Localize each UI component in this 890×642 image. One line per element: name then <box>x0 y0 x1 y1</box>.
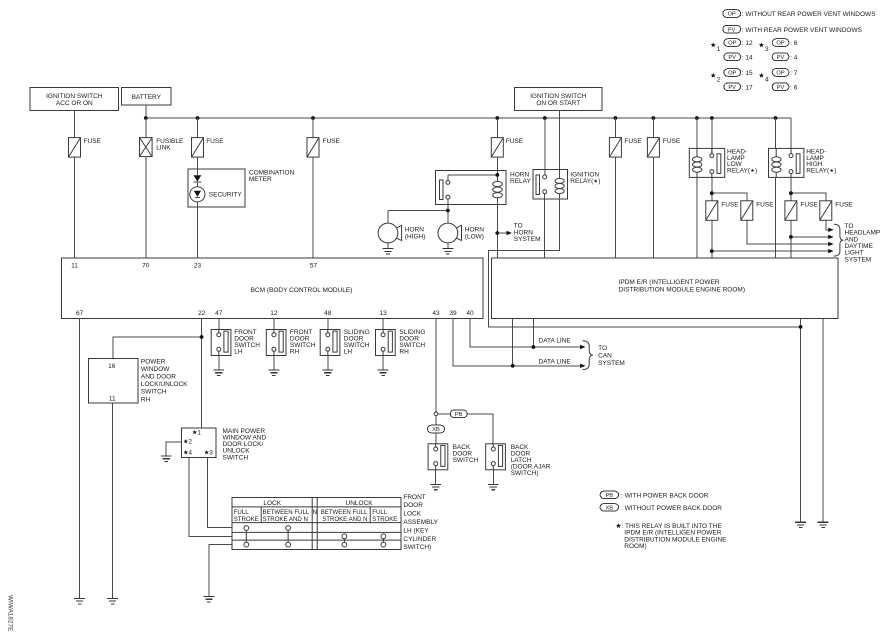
svg-text:FUSE: FUSE <box>721 201 739 208</box>
wire: headlamp high contact to fuses <box>791 177 826 200</box>
wire: main switch pin 3 to key cylinder row A <box>207 458 232 528</box>
svg-text:: 14: : 14 <box>742 55 753 62</box>
svg-text:DATA LINE: DATA LINE <box>539 337 572 344</box>
svg-text:RELAY(: RELAY( <box>727 168 751 175</box>
fuse F10 <box>820 201 832 221</box>
arrow: headlamp line 2 <box>828 235 833 239</box>
relay: horn relay <box>435 170 531 204</box>
svg-text:: 17: : 17 <box>742 84 753 91</box>
wire: ignition switch to ignition relay coil <box>559 111 561 180</box>
node: low contact branch junction <box>710 191 714 195</box>
relay: headlamp low relay <box>689 148 724 177</box>
svg-text:FULL: FULL <box>234 509 250 516</box>
svg-text:40: 40 <box>466 310 474 317</box>
svg-text:LH: LH <box>234 349 243 356</box>
ground: BCM pin 67 <box>74 598 85 603</box>
svg-text:2: 2 <box>717 76 721 83</box>
fuse F6 (IPDM) <box>652 118 654 138</box>
box: IGNITION SWITCH ACC OR ON <box>30 88 119 111</box>
pill: PB inline <box>450 410 467 418</box>
wire: bus end to headlamp high relay <box>776 118 791 154</box>
node: pin 22 branch junction <box>200 335 204 339</box>
node: bus junction ipdm fuse 2 <box>652 116 656 120</box>
node: CAN upper junction <box>532 345 536 349</box>
wire: horn relay coil to IPDM <box>496 204 498 258</box>
switch: sliding door switch RH <box>376 330 396 356</box>
svg-text:SWITCH): SWITCH) <box>403 544 431 551</box>
svg-text:METER: METER <box>249 176 272 183</box>
svg-text:ACC OR ON: ACC OR ON <box>56 100 93 107</box>
svg-text:43: 43 <box>432 310 440 317</box>
wire: diode to security lamp <box>196 182 198 187</box>
node: fuse F7 branch junction <box>710 249 714 253</box>
svg-text:OP: OP <box>776 71 784 77</box>
svg-text:DISTRIBUTION MODULE ENGINE ROO: DISTRIBUTION MODULE ENGINE ROOM) <box>619 286 745 293</box>
ground: horn high <box>383 249 394 254</box>
svg-text:11: 11 <box>71 262 78 269</box>
arrow: headlamp line 3 <box>828 242 833 246</box>
svg-text:70: 70 <box>142 262 150 269</box>
node: CAN lower junction <box>511 364 515 368</box>
svg-text:FUSE: FUSE <box>84 138 102 145</box>
svg-text:POWER: POWER <box>141 358 166 365</box>
wire: fuse F10 output <box>826 220 828 230</box>
box: IPDM E/R <box>492 258 839 319</box>
diode (combination meter) <box>194 175 202 181</box>
svg-text:57: 57 <box>310 262 318 269</box>
svg-text:FULL: FULL <box>372 509 388 516</box>
svg-text:: WITH REAR POWER VENT WINDOWS: : WITH REAR POWER VENT WINDOWS <box>742 27 863 34</box>
table: front door lock assembly LH (key cylinder switch) <box>232 497 401 549</box>
svg-text:11: 11 <box>109 396 116 403</box>
svg-text:OP: OP <box>728 71 736 77</box>
svg-text:FUSE: FUSE <box>206 138 224 145</box>
fuse F2 (security / BCM pin 23) <box>197 118 199 138</box>
svg-text:FUSE: FUSE <box>624 138 642 145</box>
svg-text:OP: OP <box>728 12 736 18</box>
svg-text:(HIGH): (HIGH) <box>405 233 426 240</box>
switch: sliding door switch LH <box>320 330 340 356</box>
wire: BCM pin 40 to CAN upper <box>470 319 580 348</box>
wire: main switch pin2 to ground <box>166 442 181 456</box>
svg-text:FRONT: FRONT <box>403 494 425 501</box>
svg-text:: 15: : 15 <box>742 70 753 77</box>
node: to-horn-system junction <box>495 231 499 235</box>
svg-text:RH: RH <box>141 396 151 403</box>
switch: front door switch LH <box>211 330 231 356</box>
wire: horn high to ground <box>387 243 389 248</box>
pill: XB inline <box>428 425 445 433</box>
wire: pin 43 through XB to back door switch <box>435 416 437 444</box>
node: bus junction ignition relay <box>543 116 547 120</box>
legend: star 1 <box>711 39 753 62</box>
wire: fuse F4 into horn relay <box>496 157 498 175</box>
svg-text:22: 22 <box>198 310 206 317</box>
wire+ground: sliding door switch LH <box>327 356 329 370</box>
fuse F7 <box>706 201 718 221</box>
switch: back door latch <box>486 444 506 470</box>
svg-text:STROKE AND N: STROKE AND N <box>263 516 308 523</box>
wire: fuse F9 to IPDM and arrow branch <box>791 220 828 258</box>
svg-text:PV: PV <box>728 85 736 91</box>
box: combination meter <box>188 169 295 207</box>
wire: ignition ACC to fuse <box>74 111 76 138</box>
key cylinder contacts column 2 <box>286 526 291 547</box>
fuse F3 (BCM pin 57) <box>312 118 314 138</box>
wire: IPDM ground 2 <box>822 319 824 522</box>
box: power window and door lock/unlock switch RH <box>89 358 189 403</box>
horn (high) <box>378 223 425 243</box>
svg-text:SECURITY: SECURITY <box>209 192 243 199</box>
label: front door lock assembly <box>403 494 438 551</box>
wire: horn low to ground <box>447 243 449 248</box>
wire: fuse F6 to IPDM <box>652 157 654 258</box>
svg-text:TO: TO <box>598 345 607 352</box>
fuse F4 (horn relay feed) <box>496 118 498 138</box>
wire: headlamp low coil to IPDM <box>696 177 698 258</box>
svg-text:: 6: : 6 <box>790 40 798 47</box>
svg-text:BCM (BODY CONTROL MODULE): BCM (BODY CONTROL MODULE) <box>251 287 353 294</box>
node: bus junction fuse 57 <box>311 116 315 120</box>
svg-text:): ) <box>755 168 757 175</box>
arrow: headlamp line 4 <box>828 249 833 253</box>
wire: fuse F5 to IPDM <box>614 157 616 258</box>
wire: fuse F8 output <box>747 220 828 244</box>
svg-text:: 12: : 12 <box>742 40 753 47</box>
wire: bus to headlamp low relay <box>697 118 712 154</box>
wire: IPDM ground 1 <box>800 319 802 522</box>
svg-text:LOCK: LOCK <box>263 500 281 507</box>
ground: main switch <box>161 456 172 461</box>
wire+ground: sliding door switch RH <box>382 356 384 370</box>
svg-text:FUSE: FUSE <box>663 138 681 145</box>
ground: horn low <box>443 249 454 254</box>
svg-text:BETWEEN FULL: BETWEEN FULL <box>321 509 368 516</box>
wire: main switch pin 4 to key cylinder row B <box>189 458 232 537</box>
wire: IPDM CAN pin 2 <box>532 319 534 348</box>
node: fuse F9 branch junction <box>789 235 793 239</box>
wire: fuse F3 to BCM pin 57 <box>312 157 314 258</box>
svg-text:4: 4 <box>188 450 192 457</box>
svg-text:PV: PV <box>777 85 785 91</box>
box: BCM (body control module) <box>62 258 483 319</box>
legend: PB with power back door <box>600 491 709 499</box>
svg-text:: 4: : 4 <box>790 55 798 62</box>
svg-text:ON OR START: ON OR START <box>536 100 580 107</box>
svg-text:SYSTEM: SYSTEM <box>514 236 541 243</box>
node: bus junction headlamp low coil <box>695 116 699 120</box>
node: horn branch junction <box>446 209 450 213</box>
fuse F1 (BCM pin 11) <box>69 138 81 158</box>
svg-text:: WITHOUT REAR POWER VENT WIND: : WITHOUT REAR POWER VENT WINDOWS <box>742 11 876 18</box>
svg-text:FUSE: FUSE <box>506 138 524 145</box>
ground: IPDM right 2 <box>818 522 829 527</box>
svg-text:PV: PV <box>777 55 785 61</box>
svg-text:DATA LINE: DATA LINE <box>539 358 572 365</box>
node: bus junction headlamp low contact <box>710 116 714 120</box>
svg-text:FUSE: FUSE <box>756 201 774 208</box>
wire: battery bus <box>146 117 791 119</box>
svg-text:12: 12 <box>270 310 278 317</box>
svg-text:39: 39 <box>449 310 457 317</box>
ground: IPDM right 1 <box>795 522 806 527</box>
relay: headlamp high relay <box>769 148 804 177</box>
wire: fusible link to BCM pin 70 <box>145 157 147 258</box>
svg-text:STROKE AND N: STROKE AND N <box>322 516 367 523</box>
svg-text:SWITCH): SWITCH) <box>511 470 539 477</box>
wire: branch to power window switch RH <box>113 337 202 359</box>
wire: BCM pin 39 to CAN lower <box>453 319 580 366</box>
box: main power window and door lock/unlock switch <box>182 428 267 461</box>
relay: ignition relay <box>533 170 600 200</box>
svg-text:13: 13 <box>379 310 387 317</box>
node: bus junction fuse 23 <box>196 116 200 120</box>
fusible link <box>145 118 147 138</box>
svg-text:RH: RH <box>290 349 300 356</box>
svg-text:UNLOCK: UNLOCK <box>346 500 374 507</box>
svg-text:16: 16 <box>108 363 116 370</box>
wire: headlamp high coil to IPDM <box>775 177 777 258</box>
svg-text:OP: OP <box>776 41 784 47</box>
arrow: to horn system <box>497 232 506 234</box>
box: IGNITION SWITCH ON OR START <box>515 88 603 111</box>
svg-text:IPDM E/R (INTELLIGENT POWER: IPDM E/R (INTELLIGENT POWER <box>619 279 720 286</box>
svg-text:: WITH POWER BACK DOOR: : WITH POWER BACK DOOR <box>621 492 709 499</box>
key cylinder contacts column 1 <box>244 526 249 547</box>
legend: star 3 <box>759 39 798 62</box>
wire: battery stub <box>145 105 147 118</box>
svg-text:XB: XB <box>606 506 614 512</box>
wire+ground: front door switch LH <box>218 356 220 370</box>
svg-text:48: 48 <box>324 310 332 317</box>
svg-text:ROOM): ROOM) <box>624 543 646 550</box>
node: bus-battery junction <box>144 116 148 120</box>
wire: fuse F7 to IPDM and arrow branch <box>712 220 828 258</box>
arrow: data line 2 <box>580 364 585 368</box>
wire+ground: front door switch RH <box>273 356 275 370</box>
svg-text:LOCK: LOCK <box>403 511 421 518</box>
svg-text:1: 1 <box>717 46 721 53</box>
svg-text:4: 4 <box>765 76 769 83</box>
legend: star note <box>616 523 727 550</box>
svg-text:WINDOW: WINDOW <box>141 366 170 373</box>
svg-text:: 7: : 7 <box>790 70 798 77</box>
wire: IPDM CAN pin 1 <box>512 319 514 366</box>
arrow: headlamp line 1 <box>828 228 833 232</box>
legend: OP pill row 1 <box>723 10 876 19</box>
node: high contact branch junction <box>789 191 793 195</box>
svg-text:AND DOOR: AND DOOR <box>141 374 176 381</box>
security indicator lamp <box>190 187 243 202</box>
svg-text:CAN: CAN <box>598 352 612 359</box>
svg-text:: 6: : 6 <box>790 84 798 91</box>
legend: PV pill row 2 <box>723 25 863 34</box>
svg-text:(LOW): (LOW) <box>465 233 484 240</box>
svg-text:2: 2 <box>188 439 192 446</box>
wire: BCM pin 48 stub <box>327 319 329 330</box>
wire: fuse F1 to BCM pin 11 <box>74 157 76 258</box>
switch: front door switch RH <box>266 330 286 356</box>
wire: headlamp low contact to fuses <box>712 177 747 200</box>
wire: BCM pin 13 stub <box>382 319 384 330</box>
svg-text:PB: PB <box>606 493 614 499</box>
svg-text:3: 3 <box>209 450 213 457</box>
wire: BCM pin 67 to ground <box>79 319 81 599</box>
wire: fuse F2 to combination meter <box>197 157 199 175</box>
svg-text:3: 3 <box>765 46 769 53</box>
wire: PB branch to back door latch <box>438 414 493 444</box>
node: bus junction headlamp high coil <box>774 116 778 120</box>
svg-text:PV: PV <box>728 27 736 33</box>
wire: BCM pin 47 stub <box>218 319 220 330</box>
svg-text:BATTERY: BATTERY <box>132 94 162 101</box>
box: BATTERY <box>122 88 172 106</box>
svg-text:RELAY(: RELAY( <box>570 178 594 185</box>
legend: star 4 <box>759 69 798 92</box>
legend: XB without power back door <box>600 504 722 512</box>
svg-text:XB: XB <box>432 427 440 433</box>
ground: key cylinder <box>204 597 215 602</box>
wire: key cylinder common to ground <box>209 545 232 597</box>
svg-text:67: 67 <box>76 310 84 317</box>
svg-text:SYSTEM: SYSTEM <box>845 256 872 263</box>
legend: star 2 <box>711 69 753 92</box>
svg-text:WIWA1827E: WIWA1827E <box>7 595 14 631</box>
fuse F9 <box>785 201 797 221</box>
svg-text:SWITCH: SWITCH <box>141 389 167 396</box>
wire+ground: back door switch <box>435 470 437 484</box>
svg-text:FUSE: FUSE <box>323 138 341 145</box>
svg-text:RH: RH <box>399 349 409 356</box>
svg-text:LINK: LINK <box>156 144 171 151</box>
svg-text:FUSE: FUSE <box>800 201 818 208</box>
svg-text:23: 23 <box>194 262 202 269</box>
wire: horn relay contact to horns <box>388 199 448 223</box>
svg-text:PV: PV <box>728 55 736 61</box>
svg-text:PB: PB <box>455 412 463 418</box>
svg-text:STROKE: STROKE <box>372 516 397 523</box>
horn (low) <box>438 223 484 243</box>
wire: security lamp to BCM pin 23 <box>196 202 198 258</box>
svg-text:STROKE: STROKE <box>234 516 259 523</box>
wire: ignition relay coil ground run <box>488 193 800 327</box>
svg-text:: WITHOUT POWER BACK DOOR: : WITHOUT POWER BACK DOOR <box>621 505 722 512</box>
arrow: data line 1 <box>580 345 585 349</box>
svg-text:SYSTEM: SYSTEM <box>598 360 625 367</box>
svg-text:ASSEMBLY: ASSEMBLY <box>403 519 438 526</box>
key cylinder contacts column 4 <box>381 534 386 547</box>
node: bus junction horn fuse <box>495 116 499 120</box>
fuse F5 (IPDM) <box>614 118 616 138</box>
svg-text:LH: LH <box>344 349 353 356</box>
svg-text:47: 47 <box>215 310 223 317</box>
svg-text:SWITCH: SWITCH <box>223 454 249 461</box>
svg-text:BETWEEN FULL: BETWEEN FULL <box>263 509 310 516</box>
node: ignition relay ground junction <box>799 325 803 329</box>
brace: to headlamp system <box>834 224 844 256</box>
svg-text:OP: OP <box>728 41 736 47</box>
wire: BCM pin 12 stub <box>273 319 275 330</box>
node: open connector circle <box>434 412 438 416</box>
node: horn relay coil top junction <box>495 173 499 177</box>
svg-text:DOOR: DOOR <box>403 502 423 509</box>
wire: ignition relay contact to IPDM <box>544 194 546 258</box>
svg-text:LOCK/UNLOCK: LOCK/UNLOCK <box>141 381 188 388</box>
svg-text:FUSE: FUSE <box>835 201 853 208</box>
fuse F8 <box>741 201 753 221</box>
svg-text:CYLINDER: CYLINDER <box>403 536 436 543</box>
wire: bus to ignition relay contact <box>544 118 546 175</box>
brace: to CAN system <box>583 341 593 370</box>
svg-text:SWITCH: SWITCH <box>453 457 479 464</box>
node: bus junction ipdm fuse 1 <box>614 116 618 120</box>
switch: back door switch <box>428 444 448 470</box>
svg-text:RELAY(: RELAY( <box>806 168 830 175</box>
svg-text:): ) <box>834 168 836 175</box>
svg-text:RELAY: RELAY <box>510 178 531 185</box>
svg-text:N: N <box>312 509 316 516</box>
ground: power window switch RH <box>107 598 118 603</box>
wire: BCM pin 43 down <box>435 319 437 413</box>
svg-text:1: 1 <box>197 430 201 437</box>
wire: BCM pin 22 down <box>201 319 203 429</box>
wire: power window switch RH to ground <box>112 403 114 598</box>
wire+ground: back door latch <box>492 470 494 484</box>
svg-text:LH (KEY: LH (KEY <box>403 527 429 534</box>
svg-text:): ) <box>598 178 600 185</box>
key cylinder contacts column 3 <box>342 534 347 547</box>
